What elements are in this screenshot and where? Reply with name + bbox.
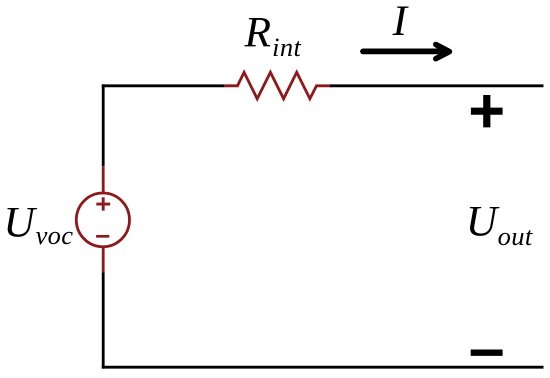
plus output terminal <box>471 95 503 127</box>
wire: left side, upper black segment <box>102 84 105 166</box>
plus polarity mark inside source <box>96 197 110 210</box>
wire: left side, lower black segment <box>102 272 105 368</box>
wire: top side, right black segment (resistor to output + terminal) <box>330 84 544 87</box>
resistor Rint (red zigzag with leads) <box>224 72 330 99</box>
svg-text:I: I <box>392 0 410 45</box>
current arrow I (shaft) <box>363 49 446 55</box>
wire: left side, red lead into source top <box>102 166 105 194</box>
svg-text:Uout: Uout <box>466 198 533 251</box>
svg-text:Rint: Rint <box>244 9 302 62</box>
voltage source Uvoc (red circle) <box>76 193 129 247</box>
wire: top side, left black segment (source corner to resistor) <box>102 84 225 87</box>
svg-text:Uvoc: Uvoc <box>3 199 73 251</box>
wire: bottom side (black return wire) <box>102 366 544 369</box>
current arrow I (head) <box>436 45 450 59</box>
wire: left side, red lead out of source bottom <box>102 246 105 272</box>
minus polarity mark inside source <box>96 235 109 238</box>
minus output terminal <box>471 350 503 356</box>
